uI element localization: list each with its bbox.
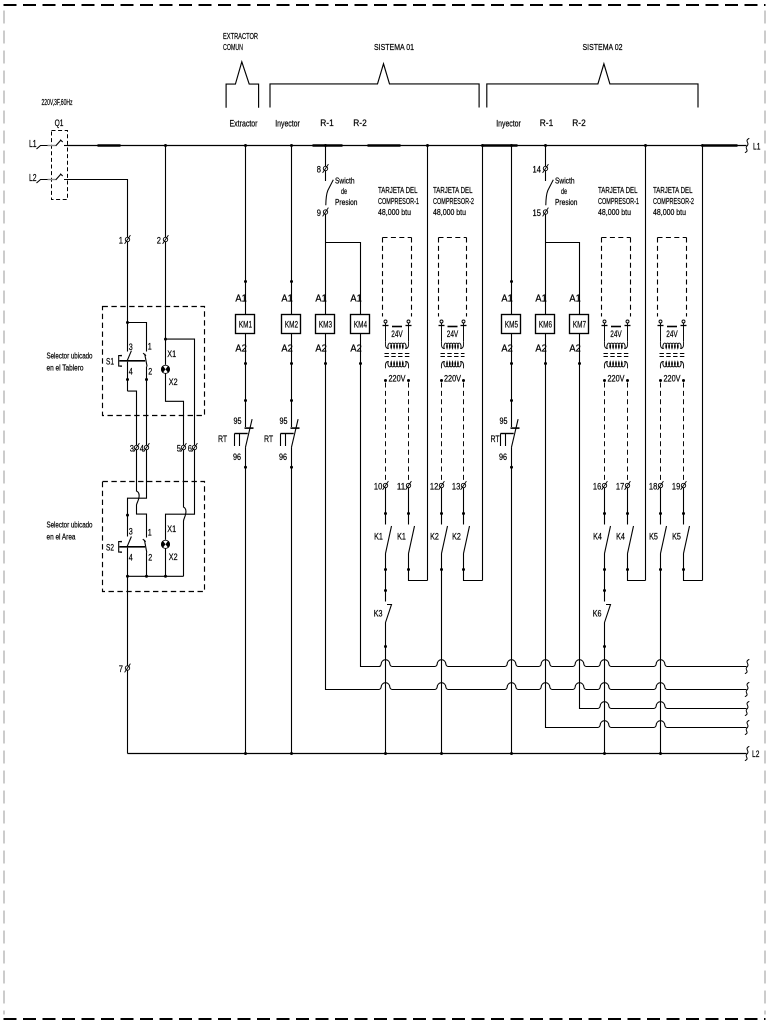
indicator lamp X1/X2 (S1) bbox=[161, 365, 169, 374]
selector S2 dashed enclosure bbox=[103, 482, 205, 592]
S1 contact 1-2 fixed tick bbox=[143, 353, 146, 356]
wire left leg to L2 rail bbox=[660, 570, 662, 754]
wire KM5 coil feed bbox=[511, 146, 513, 315]
wire S1 internal: to contact 3 bbox=[127, 323, 129, 352]
svg-text:9: 9 bbox=[317, 208, 321, 218]
svg-text:KM6: KM6 bbox=[539, 319, 552, 330]
wire bus 1 (KM4 / R-2 sys1 return) bbox=[361, 660, 747, 667]
svg-text:4: 4 bbox=[140, 443, 144, 453]
svg-text:KM2: KM2 bbox=[285, 319, 298, 330]
wire L2 to terminal 1 bbox=[64, 180, 128, 238]
wire feed from L1 rail (x=645) bbox=[644, 144, 647, 147]
wire feed from L1 rail (x=482) bbox=[481, 144, 484, 147]
contactor coil KM4 bbox=[351, 315, 370, 334]
svg-text:14: 14 bbox=[533, 164, 541, 174]
svg-text:10: 10 bbox=[374, 481, 382, 491]
junction left leg / L2 rail bbox=[440, 752, 443, 755]
svg-text:K1: K1 bbox=[374, 531, 383, 541]
svg-text:7: 7 bbox=[119, 664, 123, 674]
svg-text:RT: RT bbox=[218, 434, 227, 445]
svg-text:COMPRESOR-2: COMPRESOR-2 bbox=[433, 196, 474, 206]
wire contact K4 left leg down bbox=[604, 554, 606, 570]
terminal 11 bbox=[406, 481, 412, 490]
tarjeta dashed box TR1 bbox=[383, 237, 412, 239]
S1 contact 1-2 blade bbox=[145, 354, 147, 367]
svg-text:X1: X1 bbox=[167, 524, 176, 534]
selector S1 dashed enclosure bbox=[103, 307, 205, 416]
svg-text:KM7: KM7 bbox=[573, 319, 586, 330]
svg-text:RT: RT bbox=[491, 434, 500, 445]
svg-text:X1: X1 bbox=[167, 349, 176, 359]
wire L2 lead-in bbox=[37, 180, 48, 184]
S2 contact 3-4 blade bbox=[127, 537, 131, 547]
svg-text:de: de bbox=[561, 186, 567, 196]
terminal 14 bbox=[543, 164, 549, 173]
tarjeta dashed box TR4 bbox=[658, 237, 687, 239]
svg-text:COMPRESOR-1: COMPRESOR-1 bbox=[378, 196, 419, 206]
svg-text:A1: A1 bbox=[235, 294, 247, 305]
svg-text:48,000 btu: 48,000 btu bbox=[433, 207, 466, 217]
wire L2 rail bbox=[128, 753, 747, 755]
wire 16 to contact K4 bbox=[604, 488, 606, 525]
junction L1/KM5 bbox=[510, 144, 513, 147]
terminal 1 bbox=[125, 235, 131, 244]
svg-text:A1: A1 bbox=[315, 294, 327, 305]
svg-text:24V: 24V bbox=[447, 329, 459, 339]
svg-text:96: 96 bbox=[499, 452, 507, 462]
svg-text:220V: 220V bbox=[608, 374, 625, 384]
wire S2: terminal 5 feed with hop to bottom bus bbox=[184, 482, 186, 576]
svg-text:16: 16 bbox=[593, 481, 601, 491]
bracket SISTEMA 02 bbox=[487, 64, 698, 108]
transformer TR4 24V/220V bbox=[658, 320, 687, 342]
node L2 (right) break bbox=[745, 746, 749, 760]
wire terminal 6 vertical bbox=[194, 416, 196, 445]
wire S1 internal: to lamp X1 bbox=[165, 339, 167, 365]
secondary winding bbox=[385, 362, 408, 369]
svg-text:1: 1 bbox=[119, 235, 123, 245]
wire TR4 secondary leads (dashed) bbox=[660, 383, 662, 483]
wire branch to R-2 contactor bbox=[326, 243, 361, 315]
svg-text:X2: X2 bbox=[169, 552, 178, 562]
primary winding bbox=[441, 342, 463, 349]
svg-text:Selector ubicado: Selector ubicado bbox=[47, 351, 93, 361]
contactor coil KM3 bbox=[316, 315, 335, 334]
svg-text:5: 5 bbox=[177, 443, 181, 453]
svg-text:8: 8 bbox=[317, 164, 321, 174]
terminal 5 bbox=[181, 443, 187, 452]
primary winding bbox=[660, 342, 683, 349]
wire S1 lamp to exit bbox=[166, 373, 184, 416]
bracket EXTRACTOR COMUN bbox=[226, 62, 259, 108]
svg-text:Inyector: Inyector bbox=[496, 119, 521, 129]
wire KM7 A2 to bus3 bbox=[580, 334, 598, 709]
svg-text:220V: 220V bbox=[664, 374, 681, 384]
wire terminal 2 drop bbox=[165, 146, 167, 238]
primary winding bbox=[604, 342, 627, 349]
wire KM1 RT to L2 rail bbox=[245, 447, 247, 753]
wire left leg to L2 rail bbox=[441, 570, 443, 754]
junction left leg / L2 rail bbox=[384, 752, 387, 755]
wire feed from L1 rail (x=702) bbox=[701, 144, 704, 147]
terminal 9 bbox=[323, 208, 329, 217]
terminal 19 bbox=[681, 481, 687, 490]
terminal 8 bbox=[323, 164, 329, 173]
svg-text:48,000 btu: 48,000 btu bbox=[598, 207, 631, 217]
wire S1 contact 2 to exit bbox=[146, 367, 148, 417]
breaker Q1 dashed enclosure bbox=[52, 131, 68, 200]
wire bus 2 (KM3 / R-1 sys1 return) bbox=[326, 683, 747, 690]
svg-text:2: 2 bbox=[157, 235, 161, 245]
svg-text:COMPRESOR-1: COMPRESOR-1 bbox=[598, 196, 639, 206]
svg-text:3: 3 bbox=[129, 526, 133, 536]
svg-text:K2: K2 bbox=[452, 531, 461, 541]
svg-text:Inyector: Inyector bbox=[275, 119, 300, 129]
S2 contact 1-2 fixed tick bbox=[143, 539, 146, 542]
contactor coil KM5 bbox=[502, 315, 521, 334]
svg-text:COMUN: COMUN bbox=[223, 43, 243, 52]
breaker Q1 pole 1 (pins 1-2) bbox=[48, 145, 56, 147]
wire contact K3 to L2 rail bbox=[385, 623, 387, 754]
svg-text:12: 12 bbox=[430, 481, 438, 491]
tarjeta dashed box TR3 bbox=[602, 237, 631, 239]
wire KM2 coil feed bbox=[291, 146, 293, 315]
svg-text:SISTEMA 02: SISTEMA 02 bbox=[583, 42, 623, 52]
border frame bbox=[4, 4, 766, 6]
wire contact K1 left leg down bbox=[385, 554, 387, 570]
core bbox=[604, 353, 629, 355]
svg-text:de: de bbox=[341, 186, 347, 196]
wire S2 output to terminal 7 bbox=[127, 576, 129, 665]
junction KM1/L2 rail bbox=[244, 752, 247, 755]
secondary winding bbox=[660, 362, 683, 369]
wire TR1 secondary leads (dashed) bbox=[385, 383, 387, 483]
junction KM2/L2 rail bbox=[290, 752, 293, 755]
svg-text:A1: A1 bbox=[501, 294, 513, 305]
wire terminal 7 to L2 rail bbox=[127, 670, 129, 753]
wire S2 lamp to bottom bus bbox=[165, 548, 167, 576]
terminal 18 bbox=[658, 481, 664, 490]
svg-text:4: 4 bbox=[129, 552, 133, 562]
svg-text:Selector ubicado: Selector ubicado bbox=[47, 520, 93, 530]
svg-text:L1: L1 bbox=[753, 142, 760, 152]
svg-text:R-2: R-2 bbox=[353, 118, 367, 128]
terminal 2 bbox=[163, 235, 169, 244]
wire 13 to contact K2 bbox=[463, 488, 465, 525]
node L1 (right) break bbox=[745, 138, 749, 152]
svg-text:19: 19 bbox=[672, 481, 680, 491]
svg-text:Swicth: Swicth bbox=[335, 176, 355, 186]
wire 12 to contact K2 bbox=[441, 488, 443, 525]
svg-text:Q1: Q1 bbox=[55, 118, 64, 128]
svg-text:L1: L1 bbox=[29, 139, 37, 150]
wire S1 internal: to contact 1 bbox=[128, 323, 147, 352]
svg-text:TARJETA DEL: TARJETA DEL bbox=[433, 185, 473, 195]
svg-text:Presion: Presion bbox=[555, 197, 578, 207]
breaker Q1 pole 2 (pins 3-4) bbox=[48, 179, 56, 181]
svg-text:L2: L2 bbox=[752, 749, 759, 759]
tarjeta dashed box TR2 bbox=[439, 237, 467, 239]
wire left leg to contact K6 bbox=[604, 570, 606, 602]
svg-text:K4: K4 bbox=[616, 531, 625, 541]
terminal 3 bbox=[134, 443, 140, 452]
svg-text:220V,3F,60Hz: 220V,3F,60Hz bbox=[42, 98, 73, 107]
node junction wire2/S1 bbox=[164, 338, 167, 341]
wire terminal 4 vertical bbox=[146, 416, 148, 445]
svg-text:KM4: KM4 bbox=[354, 319, 368, 330]
wire terminal 9 down bbox=[325, 214, 327, 314]
wire bus 4 (KM6 / R-1 sys2 return) bbox=[546, 721, 747, 728]
svg-text:A1: A1 bbox=[535, 294, 547, 305]
wire terminal 8 to switch bbox=[325, 171, 327, 181]
wire S1 contact 4 to exit bbox=[127, 362, 129, 391]
svg-text:K5: K5 bbox=[672, 531, 681, 541]
svg-text:KM1: KM1 bbox=[239, 319, 252, 330]
svg-text:3: 3 bbox=[129, 342, 133, 352]
wire KM5 A2 down to RT bbox=[511, 334, 513, 428]
svg-text:24V: 24V bbox=[610, 329, 622, 339]
svg-text:L2: L2 bbox=[29, 173, 37, 184]
svg-text:KM3: KM3 bbox=[319, 319, 332, 330]
svg-text:24V: 24V bbox=[391, 329, 403, 339]
svg-text:en el Area: en el Area bbox=[47, 532, 76, 542]
pressure switch blade bbox=[546, 180, 554, 206]
wire S2 bottom bus bbox=[128, 575, 184, 577]
wire KM2 A2 down to RT bbox=[291, 334, 293, 428]
svg-text:1: 1 bbox=[148, 527, 152, 537]
wire terminal 15 down bbox=[545, 214, 547, 314]
transformer TR3 24V/220V bbox=[602, 320, 631, 342]
svg-text:2: 2 bbox=[148, 366, 152, 376]
terminal 13 bbox=[461, 481, 467, 490]
svg-text:Extractor: Extractor bbox=[230, 119, 258, 129]
svg-text:TARJETA DEL: TARJETA DEL bbox=[598, 185, 638, 195]
svg-text:A1: A1 bbox=[569, 294, 581, 305]
contactor coil KM2 bbox=[282, 315, 301, 334]
junction L1/KM2 bbox=[290, 144, 293, 147]
wire L1 rail bbox=[68, 145, 747, 147]
svg-text:A1: A1 bbox=[281, 294, 293, 305]
svg-text:K5: K5 bbox=[649, 531, 658, 541]
wire L1 lead-in bbox=[37, 146, 48, 150]
contactor coil KM1 bbox=[236, 315, 255, 334]
svg-text:EXTRACTOR: EXTRACTOR bbox=[223, 32, 258, 41]
wire feed from L1 rail (x=427) bbox=[426, 144, 429, 147]
svg-text:COMPRESOR-2: COMPRESOR-2 bbox=[653, 196, 694, 206]
junction on L1 rail (terminal 2 drop) bbox=[164, 144, 167, 147]
junction L1/KM1 bbox=[244, 144, 247, 147]
wire KM6 A2 to bus4 bbox=[546, 334, 573, 728]
S2 actuator bar bbox=[119, 546, 145, 548]
svg-text:2: 2 bbox=[148, 552, 152, 562]
wire TR2 secondary leads (dashed) bbox=[441, 383, 443, 483]
transformer TR2 24V/220V bbox=[439, 320, 467, 342]
junction left leg / L2 rail bbox=[659, 752, 662, 755]
junction KM5/L2 rail bbox=[510, 752, 513, 755]
wire S2: terminal 3 feed with hop to contact 1 bbox=[137, 482, 147, 538]
wire contact K1 right leg to feed bbox=[409, 554, 428, 581]
wire contact K5 right leg to feed bbox=[684, 554, 703, 581]
pressure switch blade bbox=[326, 180, 334, 206]
terminal 6 bbox=[192, 443, 198, 452]
junction L1/pressure switch bbox=[544, 144, 547, 147]
svg-text:Presion: Presion bbox=[335, 197, 358, 207]
wire 11 to contact K1 bbox=[408, 488, 410, 525]
wire KM5 RT to L2 rail bbox=[511, 447, 513, 753]
wire KM1 A2 down to RT bbox=[245, 334, 247, 428]
svg-text:K2: K2 bbox=[430, 531, 439, 541]
svg-text:X2: X2 bbox=[169, 377, 178, 387]
svg-text:TARJETA DEL: TARJETA DEL bbox=[378, 185, 418, 195]
svg-text:SISTEMA 01: SISTEMA 01 bbox=[374, 42, 414, 52]
wire rail to terminal 8 bbox=[325, 146, 327, 167]
wire S2 contact 2 to bottom bus bbox=[146, 553, 148, 577]
svg-text:1: 1 bbox=[148, 341, 152, 351]
secondary winding bbox=[604, 362, 627, 369]
svg-text:96: 96 bbox=[279, 452, 287, 462]
svg-text:18: 18 bbox=[649, 481, 657, 491]
svg-text:220V: 220V bbox=[444, 374, 461, 384]
svg-text:24V: 24V bbox=[666, 329, 678, 339]
svg-text:TARJETA DEL: TARJETA DEL bbox=[653, 185, 693, 195]
svg-text:220V: 220V bbox=[389, 374, 406, 384]
terminal 15 bbox=[543, 208, 549, 217]
svg-text:95: 95 bbox=[500, 416, 508, 426]
svg-text:Swicth: Swicth bbox=[555, 176, 575, 186]
terminal 17 bbox=[625, 481, 631, 490]
svg-text:48,000 btu: 48,000 btu bbox=[378, 207, 411, 217]
wire S2: terminal 6 feed to lamp bbox=[166, 482, 195, 541]
svg-text:13: 13 bbox=[452, 481, 460, 491]
svg-text:KM5: KM5 bbox=[505, 319, 518, 330]
wire contact K4 right leg to feed bbox=[628, 554, 646, 581]
S1 contact 3-4 blade bbox=[127, 351, 131, 361]
wire KM4 A2 to bus1 bbox=[361, 334, 381, 667]
svg-text:96: 96 bbox=[233, 452, 241, 462]
svg-text:K3: K3 bbox=[374, 608, 383, 618]
wire KM1 coil feed bbox=[245, 146, 247, 315]
wire KM2 RT to L2 rail bbox=[291, 447, 293, 753]
wire TR3 secondary leads (dashed) bbox=[604, 383, 606, 483]
svg-text:3: 3 bbox=[130, 443, 134, 453]
core bbox=[385, 353, 410, 355]
wire terminal 3 vertical bbox=[136, 416, 138, 445]
contactor coil KM6 bbox=[536, 315, 555, 334]
wire L1 rail heavy segments bbox=[98, 144, 121, 147]
wire contact K2 right leg to feed bbox=[464, 554, 483, 581]
svg-text:95: 95 bbox=[234, 416, 242, 426]
wire contact K2 left leg down bbox=[441, 554, 443, 570]
svg-text:R-1: R-1 bbox=[320, 118, 334, 128]
indicator lamp X1/X2 (S2) bbox=[161, 540, 169, 549]
wire 19 to contact K5 bbox=[683, 488, 685, 525]
terminal 12 bbox=[439, 481, 445, 490]
terminal 4 bbox=[144, 443, 150, 452]
wire contact K6 to L2 rail bbox=[604, 623, 606, 754]
secondary winding bbox=[441, 362, 463, 369]
contactor coil KM7 bbox=[570, 315, 589, 334]
svg-text:K4: K4 bbox=[593, 531, 602, 541]
svg-text:S1: S1 bbox=[106, 357, 114, 368]
wire S2: terminal 4 feed to contact 3 bbox=[128, 482, 147, 537]
wire rail to terminal 14 bbox=[545, 146, 547, 167]
svg-text:4: 4 bbox=[129, 366, 133, 376]
svg-text:RT: RT bbox=[264, 434, 273, 445]
wire S2 contact 4 to bottom bus bbox=[127, 548, 129, 577]
wire KM3 A2 to bus2 bbox=[326, 334, 363, 690]
terminal 7 bbox=[125, 664, 131, 673]
svg-text:A1: A1 bbox=[350, 294, 362, 305]
core bbox=[441, 353, 465, 355]
svg-text:6: 6 bbox=[188, 443, 192, 453]
svg-text:R-1: R-1 bbox=[540, 118, 554, 128]
junction left leg / L2 rail bbox=[603, 752, 606, 755]
svg-text:11: 11 bbox=[397, 481, 405, 491]
wire contact K5 left leg down bbox=[660, 554, 662, 570]
node junction wire1/S1 bbox=[126, 321, 129, 324]
svg-text:K6: K6 bbox=[593, 608, 602, 618]
primary winding bbox=[385, 342, 408, 349]
svg-text:S2: S2 bbox=[106, 543, 114, 554]
wire 18 to contact K5 bbox=[660, 488, 662, 525]
wire left leg to contact K3 bbox=[385, 570, 387, 602]
S2 contact 1-2 blade bbox=[144, 540, 146, 553]
wire branch to R-2 contactor bbox=[546, 243, 580, 315]
wire 17 to contact K4 bbox=[627, 488, 629, 525]
terminal 10 bbox=[383, 481, 389, 490]
wire terminal 5 vertical bbox=[183, 416, 185, 445]
wire 10 to contact K1 bbox=[385, 488, 387, 525]
junction L1/pressure switch bbox=[324, 144, 327, 147]
wire bus 3 (KM7 / R-2 sys2 return) bbox=[580, 702, 747, 709]
core bbox=[660, 353, 685, 355]
svg-text:15: 15 bbox=[533, 208, 541, 218]
svg-text:17: 17 bbox=[616, 481, 624, 491]
wire terminal 14 to switch bbox=[545, 171, 547, 181]
svg-text:K1: K1 bbox=[397, 531, 406, 541]
svg-text:R-2: R-2 bbox=[572, 118, 586, 128]
wire terminal 1 into selector S1 bbox=[127, 242, 129, 322]
S1 actuator bar bbox=[119, 360, 145, 362]
wire S1 internal: branch to terminal 6 bbox=[166, 339, 195, 416]
svg-text:95: 95 bbox=[280, 416, 288, 426]
transformer TR1 24V/220V bbox=[383, 320, 412, 342]
bracket SISTEMA 01 bbox=[270, 64, 479, 108]
svg-text:48,000 btu: 48,000 btu bbox=[653, 207, 686, 217]
terminal 16 bbox=[602, 481, 608, 490]
svg-text:en el Tablero: en el Tablero bbox=[47, 363, 84, 373]
wire terminal 2 into selector S1 bbox=[165, 242, 167, 339]
